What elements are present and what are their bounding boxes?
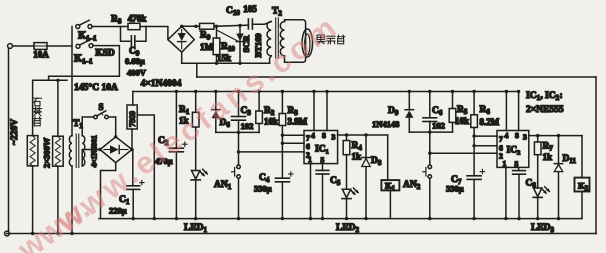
- wire: [47, 45, 72, 47]
- svg-text:0.68μ: 0.68μ: [125, 56, 145, 66]
- wire: IC1 pin3 output: [338, 134, 388, 136]
- resistor R4 1k: [346, 135, 348, 141]
- label ozone tube (CJK): [317, 35, 325, 44]
- svg-text:1: 1: [326, 149, 329, 156]
- wire: IC1 pin7: [282, 134, 304, 136]
- wire: T2 secondary loop: [285, 20, 306, 63]
- wire: heater feed: [49, 46, 120, 81]
- wire: 7809 out to 9V rail: [132, 92, 134, 106]
- quartz tube heater 2: [57, 80, 59, 136]
- wire: SCR anode bus: [182, 25, 200, 27]
- switch S: [82, 117, 93, 136]
- resistor R5 10k: [452, 92, 454, 109]
- capacitor C5: [322, 164, 324, 171]
- wire: ground rail: [99, 218, 582, 220]
- wire: AC source left edge: [8, 48, 10, 232]
- diode D9 1N4148: [408, 92, 410, 110]
- wire: trigger node (left): [216, 131, 259, 133]
- wire: heater bus: [33, 79, 67, 81]
- wire: trigger node (right): [409, 131, 452, 133]
- wire: bridge- to ground rail: [101, 163, 116, 219]
- capacitor C9 0.68u 400V: [121, 27, 130, 42]
- svg-text:470k: 470k: [128, 14, 147, 24]
- fuse 10A: [34, 43, 47, 50]
- wire: 7809 gnd: [137, 115, 154, 219]
- relay coil K1: [387, 135, 389, 180]
- svg-text:3: 3: [523, 133, 527, 142]
- svg-text:2: 2: [517, 150, 520, 157]
- resistor R2 10k: [258, 92, 260, 112]
- svg-text:2×300W: 2×300W: [42, 137, 52, 168]
- push button AN2: [428, 152, 431, 155]
- svg-text:1k: 1k: [352, 152, 362, 162]
- svg-text:4×1N4001: 4×1N4001: [90, 135, 99, 167]
- capacitor C6 102: [429, 92, 431, 118]
- svg-text:145°C 10A: 145°C 10A: [74, 82, 118, 93]
- svg-text:7: 7: [499, 135, 503, 144]
- resistor R1 1k: [195, 92, 197, 113]
- resistor R7 1k: [537, 136, 539, 142]
- svg-text:8: 8: [515, 131, 519, 140]
- LED3: [534, 188, 542, 197]
- svg-text:KSD: KSD: [95, 49, 115, 59]
- wire: [12, 45, 34, 47]
- diode D11: [558, 136, 560, 164]
- svg-text:10k: 10k: [455, 116, 469, 126]
- wire: frame bottom / AC neutral: [7, 233, 596, 235]
- svg-text:400V: 400V: [127, 68, 147, 78]
- diode D8: [365, 135, 367, 158]
- capacitor C1 220u: [132, 150, 134, 186]
- resistor R8 470k: [92, 26, 128, 28]
- wire: IC1 pin2 / trigger: [239, 151, 305, 153]
- label 2x300W quartz tubes (rotated): [42, 137, 52, 168]
- svg-text:10A: 10A: [33, 50, 49, 60]
- watermark (decorative): [11, 10, 343, 253]
- wire: bridge+ to 7809: [131, 129, 133, 150]
- wire: frame top: [197, 76, 596, 78]
- svg-text:1N4148: 1N4148: [372, 119, 399, 129]
- capacitor C10 105: [247, 19, 249, 29]
- bridge rectifier 4x1N4004: [168, 26, 194, 52]
- svg-text:1: 1: [308, 155, 312, 164]
- wire: T1 secondary bottom to bridge: [82, 150, 100, 167]
- wire: C10 to T2: [252, 22, 271, 25]
- diode D6: [215, 92, 217, 110]
- svg-text:IC: IC: [507, 146, 518, 156]
- svg-text:8: 8: [322, 131, 326, 140]
- capacitor C2 470u: [175, 92, 177, 149]
- capacitor C8: [518, 167, 520, 170]
- label 4x1N4001 (rotated): [90, 135, 99, 167]
- svg-text:15k: 15k: [217, 53, 231, 63]
- op-amp/timer IC2 NE555: [497, 131, 529, 168]
- node: AC live terminal: [8, 44, 13, 49]
- wire: SCR section ground: [181, 52, 183, 63]
- svg-text:4×1N4004: 4×1N4004: [141, 79, 182, 89]
- svg-text:4: 4: [311, 131, 315, 140]
- capacitor C3 102: [238, 92, 240, 117]
- wire: IC1 pin8: [326, 92, 328, 131]
- wire: +9V rail: [133, 91, 519, 93]
- wire: IC2 pin7: [474, 135, 497, 137]
- op-amp/timer IC1 NE555: [304, 131, 338, 164]
- thermal switch K1-1 KSD (bottom): [76, 44, 80, 48]
- svg-text:10k: 10k: [264, 117, 278, 127]
- wire: IC2 pin1: [505, 167, 507, 218]
- svg-text:4: 4: [505, 131, 509, 140]
- wire: IC2 pin6: [474, 145, 497, 147]
- svg-text:330μ: 330μ: [446, 184, 464, 194]
- wire: frame right: [595, 77, 597, 234]
- wire: IC2 pin2: [430, 152, 497, 154]
- LED1: [192, 171, 200, 180]
- svg-text:3: 3: [332, 133, 336, 142]
- wire: junction vertical / T1 feed: [71, 27, 73, 136]
- capacitor C4 330u: [275, 177, 289, 179]
- LED2: [342, 189, 350, 198]
- svg-text:IC: IC: [315, 145, 326, 155]
- resistor R3 3.9M: [281, 92, 283, 114]
- resistor R6 8.2M: [473, 92, 475, 115]
- relay coil K2: [581, 136, 583, 178]
- svg-text:3.9M: 3.9M: [288, 117, 308, 127]
- relay contact K1-1 (top): [76, 25, 80, 29]
- node: AC neutral terminal: [5, 231, 10, 236]
- svg-text:8.2M: 8.2M: [480, 117, 500, 127]
- wire: gate: [218, 31, 239, 42]
- wire: IC1 pin6: [282, 142, 304, 144]
- svg-text:1k: 1k: [543, 152, 553, 162]
- thyristor SCR BT169: [239, 25, 241, 63]
- svg-text:330μ: 330μ: [254, 184, 272, 194]
- wire: IC1 pin4: [313, 92, 315, 131]
- wire: IC2 pin4: [505, 92, 507, 131]
- svg-text::: :: [560, 91, 563, 101]
- svg-text:102: 102: [432, 121, 445, 131]
- bridge rectifier 4x1N4001: [100, 137, 132, 163]
- svg-text:SCR: SCR: [241, 35, 251, 53]
- junction dots on neutral rail: [31, 232, 34, 235]
- push button AN1: [237, 150, 240, 153]
- svg-text:~220V: ~220V: [10, 119, 20, 145]
- wire: IC2 pin3 output: [529, 135, 582, 137]
- regulator 7809: [127, 105, 137, 129]
- resistor R10 15k: [216, 26, 218, 38]
- label ~220V (rotated): [10, 119, 20, 145]
- wire: SCR section ground to frame: [196, 63, 198, 77]
- wire: IC1 pin1: [310, 164, 312, 219]
- svg-text:1M: 1M: [200, 42, 214, 52]
- quartz tube heater 1: [32, 80, 34, 135]
- svg-text:S: S: [98, 102, 103, 112]
- svg-text:BT169: BT169: [253, 33, 263, 57]
- svg-text:7809: 7809: [128, 111, 137, 127]
- svg-text:2×NE555: 2×NE555: [526, 105, 564, 115]
- ozone tube: [302, 29, 312, 57]
- wire to bridge: [146, 27, 168, 40]
- capacitor C7 330u: [467, 175, 481, 177]
- resistor R9 1M: [200, 23, 215, 29]
- svg-text:102: 102: [241, 121, 254, 131]
- wire: IC2 pin8: [518, 92, 520, 131]
- svg-text:105: 105: [243, 4, 257, 14]
